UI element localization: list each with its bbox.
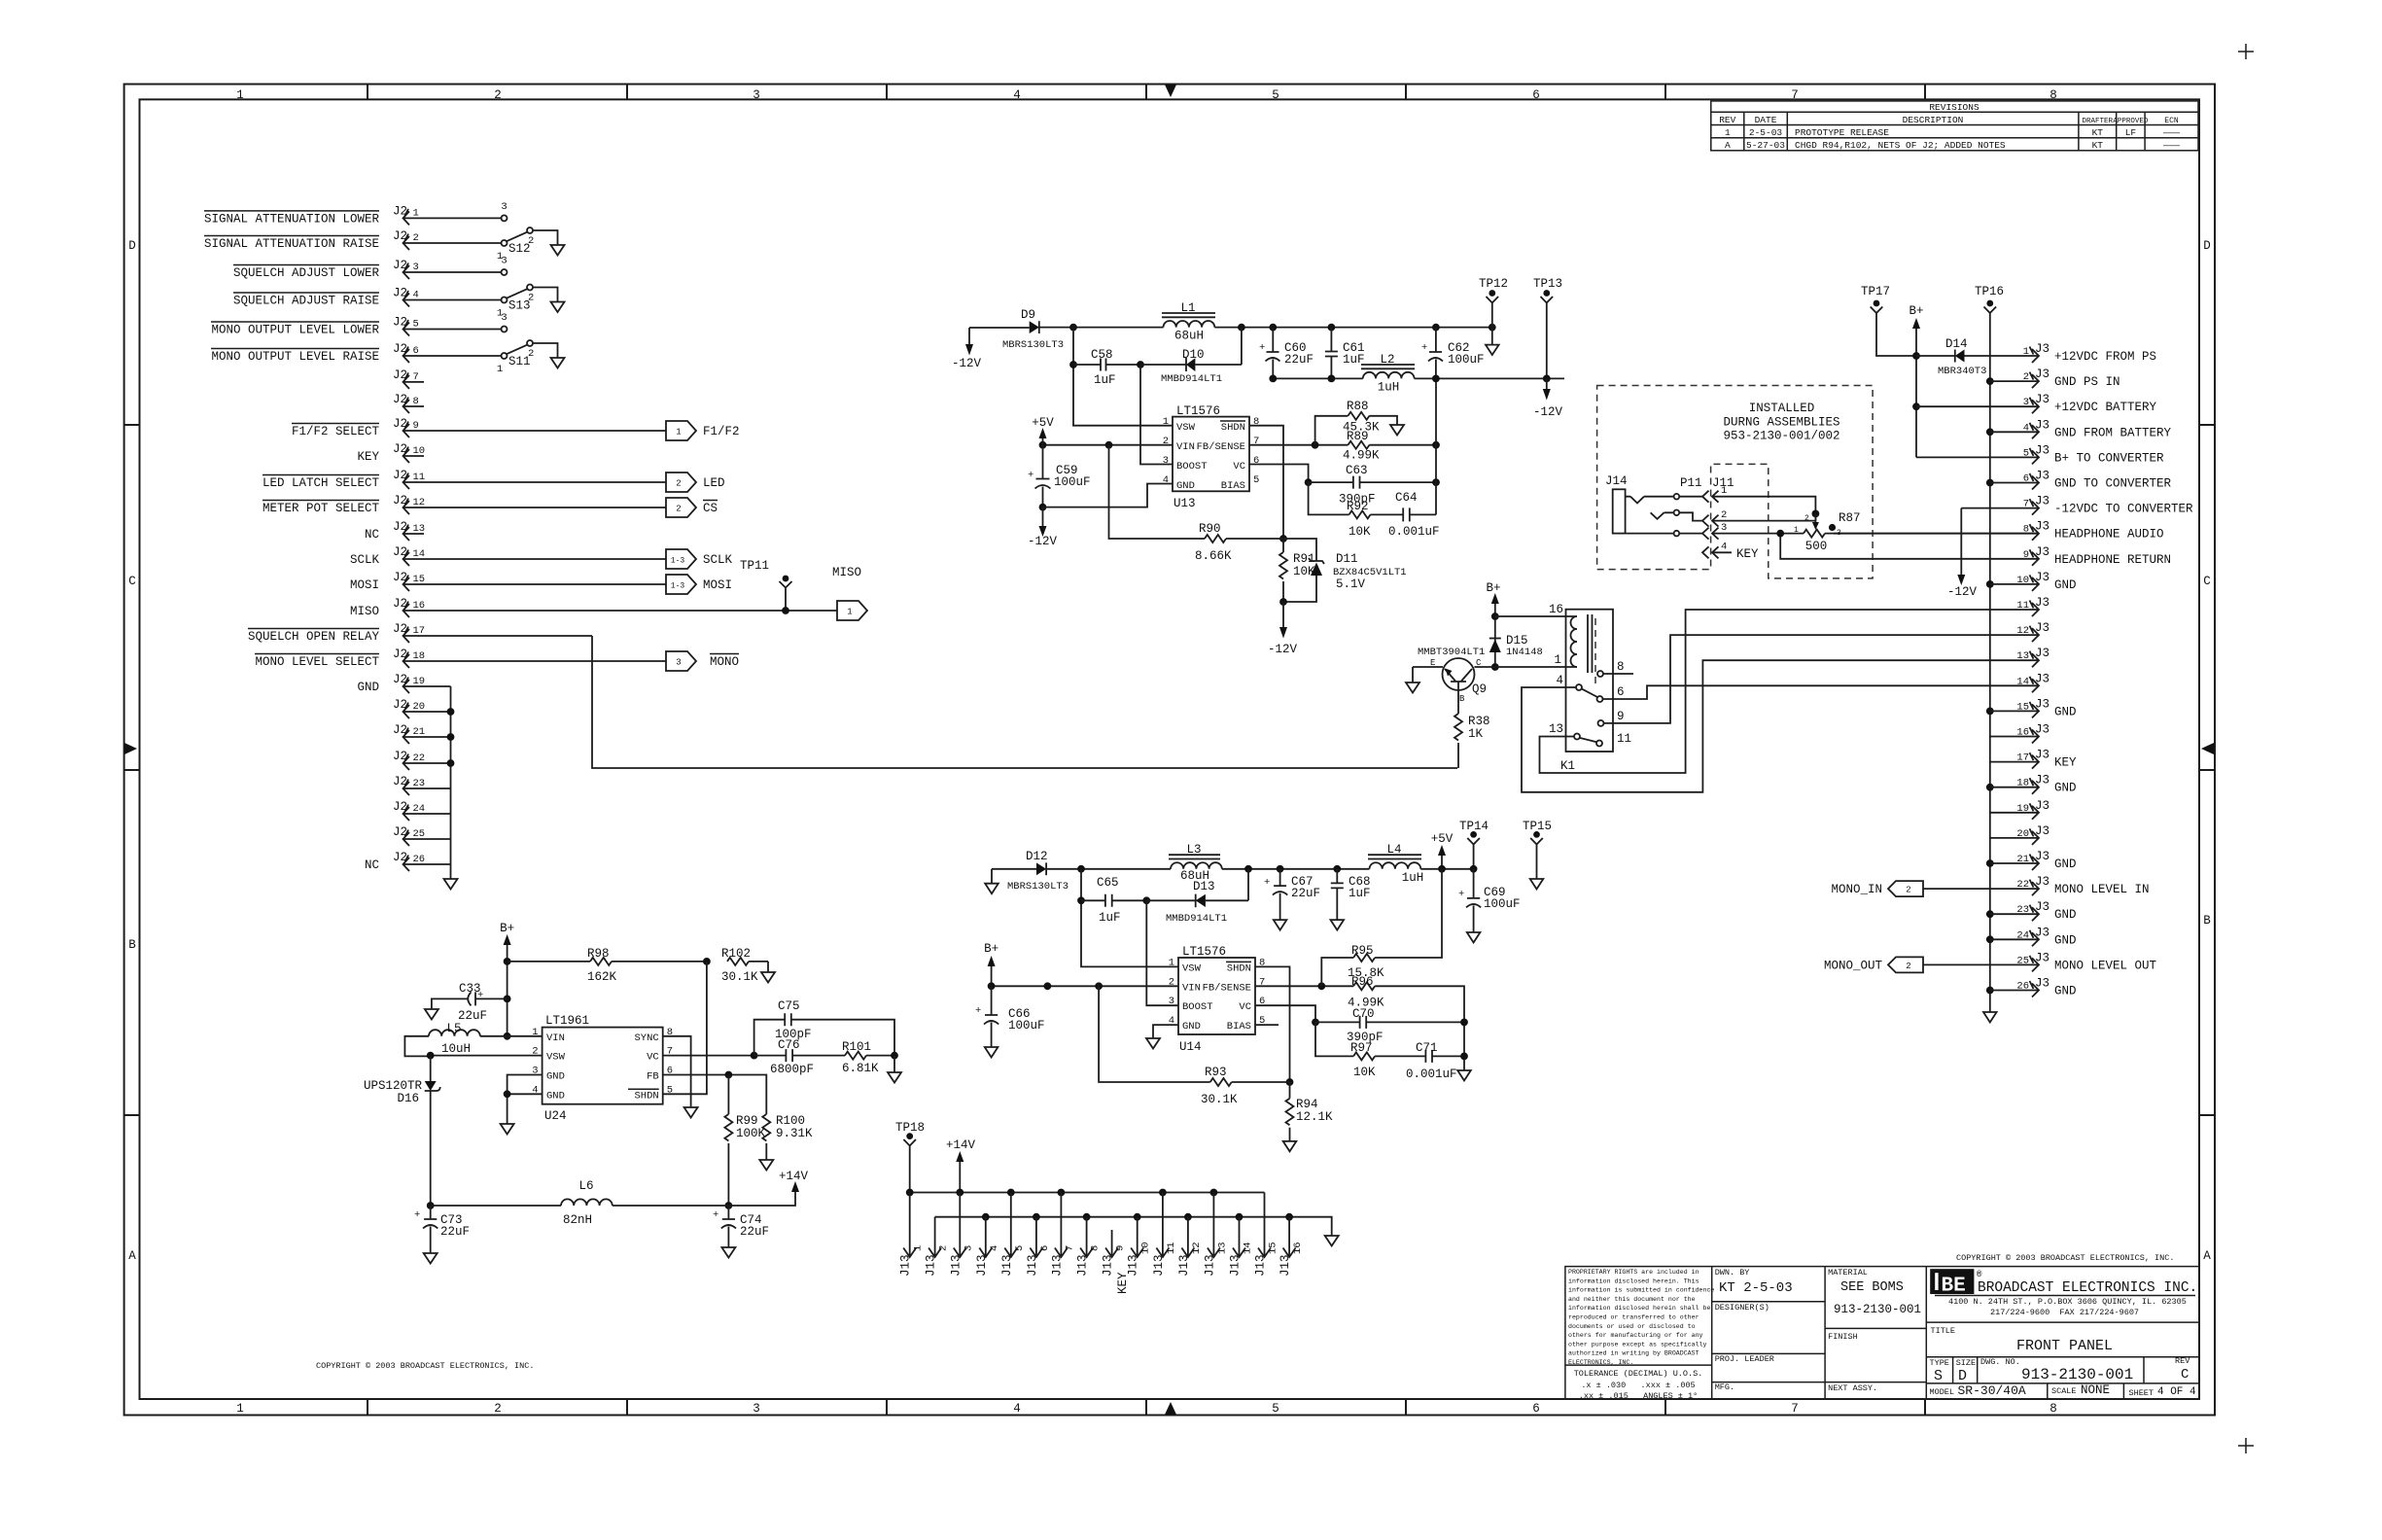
capacitor C63: [1309, 464, 1436, 507]
connector J2 pin 5: [393, 316, 502, 336]
svg-text:BROADCAST ELECTRONICS INC.: BROADCAST ELECTRONICS INC.: [1978, 1280, 2197, 1296]
svg-text:25: 25: [2016, 955, 2029, 966]
svg-text:GND: GND: [2054, 908, 2077, 922]
svg-text:B+: B+: [984, 942, 998, 956]
svg-text:913-2130-001: 913-2130-001: [2021, 1366, 2133, 1383]
relay K1 / Q9 driver section: [1406, 581, 1633, 773]
svg-text:SEE BOMS: SEE BOMS: [1840, 1280, 1904, 1295]
ground (R101/C75): [888, 1056, 901, 1083]
svg-text:TOLERANCE (DECIMAL) U.O.S.: TOLERANCE (DECIMAL) U.O.S.: [1574, 1369, 1703, 1379]
svg-text:K1: K1: [1560, 759, 1575, 773]
svg-text:and neither this document nor: and neither this document nor the: [1568, 1296, 1696, 1303]
power +14V: [779, 1170, 809, 1192]
svg-text:3: 3: [753, 1402, 760, 1416]
svg-text:C75: C75: [778, 999, 800, 1013]
svg-text:C64: C64: [1395, 491, 1418, 505]
svg-text:LED: LED: [703, 476, 725, 490]
capacitor C68: [1331, 869, 1371, 920]
connector J13 pin 6: [1026, 1217, 1051, 1277]
connector J3 pin 3: [1916, 393, 2157, 414]
connector J3 pin 12 (wire to K1 pin 9): [1604, 621, 2050, 723]
svg-text:MBRS130LT3: MBRS130LT3: [1007, 881, 1068, 892]
connector J3 pin 11 (wire to K1 pin 13): [1540, 596, 2050, 773]
wire J11.1 to R87 wiper: [1712, 497, 1815, 521]
contact pin 4: [1576, 684, 1582, 690]
connector J3 pin 24: [1986, 926, 2077, 947]
svg-text:SIGNAL ATTENUATION LOWER: SIGNAL ATTENUATION LOWER: [204, 212, 380, 226]
resistor R102: [721, 947, 768, 984]
svg-text:-12V: -12V: [1268, 643, 1298, 656]
svg-text:®: ®: [1977, 1270, 1982, 1279]
lower B+ to +5V converter (U14): [975, 820, 1552, 1151]
connector J2 pin 18: [393, 647, 666, 668]
svg-text:TP17: TP17: [1861, 285, 1890, 298]
svg-text:10K: 10K: [1349, 525, 1371, 539]
svg-text:MONO: MONO: [710, 655, 739, 669]
svg-text:GND: GND: [546, 1090, 565, 1102]
svg-text:MISO: MISO: [350, 605, 379, 618]
svg-text:FB: FB: [647, 1071, 659, 1083]
connector J3 pin 9: [1780, 534, 2171, 567]
svg-text:J2: J2: [393, 393, 407, 406]
svg-text:J3: J3: [2035, 850, 2049, 863]
ground (R102): [761, 962, 775, 983]
svg-text:100uF: 100uF: [1054, 475, 1091, 489]
svg-text:2: 2: [676, 479, 681, 489]
inductor L2: [1361, 353, 1415, 395]
svg-text:L6: L6: [578, 1179, 593, 1193]
switch S12: [497, 201, 565, 262]
svg-text:16: 16: [1292, 1242, 1304, 1254]
svg-text:10uH: 10uH: [441, 1042, 471, 1056]
svg-text:-12V: -12V: [1533, 405, 1563, 419]
svg-text:16: 16: [2016, 727, 2029, 739]
svg-text:R97: R97: [1350, 1041, 1373, 1055]
power B+: [1909, 304, 1923, 457]
inductor L4: [1368, 843, 1423, 885]
svg-text:DESIGNER(S): DESIGNER(S): [1715, 1303, 1769, 1312]
svg-text:J13: J13: [899, 1254, 913, 1277]
svg-text:4: 4: [989, 1245, 1000, 1251]
svg-text:J3: J3: [2035, 672, 2049, 685]
relay coil (transformer symbol): [1571, 616, 1578, 667]
port tag MONO_IN: [1831, 881, 2038, 896]
svg-text:J2: J2: [393, 417, 407, 431]
svg-text:-12V: -12V: [1028, 535, 1058, 548]
connector J2 pin 22: [393, 750, 454, 770]
svg-text:GND PS IN: GND PS IN: [2054, 375, 2120, 389]
svg-text:4: 4: [413, 290, 419, 301]
net label SQUELCH OPEN RELAY: [248, 629, 380, 645]
svg-text:3: 3: [501, 312, 507, 324]
svg-text:J3: J3: [2035, 520, 2049, 534]
connector J13 pin 3: [949, 1193, 974, 1277]
svg-text:J2: J2: [393, 520, 407, 534]
svg-text:18: 18: [413, 650, 426, 662]
svg-text:GND: GND: [2054, 578, 2077, 592]
wire SHDN pin8: [1249, 426, 1283, 539]
svg-text:162K: 162K: [587, 970, 617, 984]
svg-text:J2: J2: [393, 775, 407, 788]
svg-text:KEY: KEY: [2054, 756, 2077, 770]
svg-text:J14: J14: [1605, 474, 1628, 488]
svg-text:PROTOTYPE RELEASE: PROTOTYPE RELEASE: [1795, 127, 1889, 138]
svg-text:SQUELCH ADJUST LOWER: SQUELCH ADJUST LOWER: [233, 266, 380, 280]
svg-text:23: 23: [2016, 904, 2029, 916]
svg-text:J3: J3: [2035, 367, 2049, 381]
svg-text:GND: GND: [2054, 985, 2077, 998]
connector J2 pin 24: [393, 800, 451, 821]
transistor Q9 MMBT3904LT1: [1418, 647, 1487, 704]
wire GND pins 3,4: [508, 1075, 543, 1125]
connector J13 pin 5: [1000, 1193, 1026, 1277]
svg-text:KEY: KEY: [1736, 547, 1759, 561]
svg-text:18: 18: [2016, 778, 2029, 789]
svg-text:TP13: TP13: [1533, 277, 1562, 291]
svg-text:21: 21: [2016, 854, 2029, 865]
test point TP14: [1459, 820, 1489, 869]
svg-text:30.1K: 30.1K: [721, 970, 758, 984]
power -12V (TP13): [1533, 378, 1563, 419]
connector J2 pin 8: [393, 393, 424, 413]
svg-text:5-27-03: 5-27-03: [1746, 140, 1785, 151]
wire +5V rail: [1214, 327, 1492, 329]
svg-text:J3: J3: [2035, 951, 2049, 964]
diode D10: [1140, 328, 1242, 385]
svg-text:NONE: NONE: [2081, 1383, 2110, 1397]
net label MONO OUTPUT LEVEL LOWER: [211, 322, 379, 337]
power +5V: [1032, 416, 1054, 445]
svg-text:20: 20: [413, 701, 426, 713]
svg-text:1: 1: [236, 88, 244, 102]
power B+ (relay): [1486, 581, 1500, 667]
resistor R88: [1315, 400, 1404, 445]
svg-text:J3: J3: [2035, 723, 2049, 737]
net label METER POT SELECT: [263, 501, 380, 516]
schottky diode D16 UPS120TR: [364, 1056, 440, 1105]
svg-text:reproduced or transferred to o: reproduced or transferred to other: [1568, 1314, 1699, 1321]
connector J13 pin 14: [1229, 1217, 1254, 1277]
svg-text:J3: J3: [2035, 393, 2049, 406]
ground (U24 gnd): [501, 1124, 514, 1135]
net label MONO LEVEL SELECT: [255, 654, 379, 670]
svg-text:22uF: 22uF: [740, 1225, 769, 1239]
svg-text:6: 6: [2023, 473, 2029, 485]
svg-text:D9: D9: [1021, 308, 1035, 322]
svg-text:+5V: +5V: [1032, 416, 1054, 430]
connector J2 pin 16: [393, 597, 837, 617]
wire -12V output rail: [1273, 377, 1564, 379]
connector J3 pin 22: [2016, 875, 2149, 896]
svg-text:C63: C63: [1346, 464, 1368, 477]
ground (C73): [424, 1253, 438, 1264]
svg-text:B: B: [2203, 914, 2211, 927]
upper -12V to +5V converter (U13): [952, 277, 1564, 656]
inductor L1: [1162, 301, 1215, 343]
svg-text:26: 26: [2016, 981, 2029, 993]
svg-text:22: 22: [413, 752, 426, 764]
svg-text:L5: L5: [446, 1022, 461, 1035]
svg-text:F1/F2 SELECT: F1/F2 SELECT: [292, 425, 380, 438]
node +14V rail junctions: [906, 1189, 914, 1197]
note text: [1723, 402, 1839, 443]
svg-text:C: C: [128, 575, 136, 588]
svg-text:R38: R38: [1468, 715, 1490, 728]
connector J2 pin 3: [393, 259, 502, 279]
power -12V (below C59): [1028, 507, 1058, 548]
svg-text:J2: J2: [393, 597, 407, 611]
svg-text:A: A: [2203, 1249, 2211, 1263]
svg-text:MOSI: MOSI: [703, 578, 732, 592]
svg-text:B: B: [128, 938, 136, 952]
svg-text:5.1V: 5.1V: [1336, 577, 1366, 591]
test point TP18: [895, 1121, 925, 1193]
svg-text:+: +: [1264, 877, 1270, 889]
wire SHDN pin8: [1255, 966, 1290, 1082]
svg-text:J2: J2: [393, 622, 407, 636]
connector J3 pin 19: [1990, 799, 2049, 820]
svg-text:4 OF 4: 4 OF 4: [2157, 1386, 2196, 1398]
svg-text:J13: J13: [1127, 1254, 1140, 1277]
svg-text:6: 6: [1532, 1402, 1540, 1416]
svg-text:TYPE: TYPE: [1930, 1358, 1949, 1368]
net label SIGNAL ATTENUATION LOWER: [204, 211, 380, 227]
connector J3 pin 23: [1986, 900, 2077, 922]
ground (TP15): [1530, 879, 1544, 890]
capacitor C64: [1388, 491, 1440, 539]
svg-text:100uF: 100uF: [1484, 897, 1521, 911]
svg-text:D12: D12: [1026, 850, 1048, 863]
wire D16 to low rail: [430, 1091, 432, 1206]
svg-text:SHDN: SHDN: [1227, 962, 1251, 974]
svg-text:J3: J3: [2035, 342, 2049, 356]
capacitor C60: [1259, 328, 1314, 379]
svg-text:SCALE: SCALE: [2051, 1386, 2077, 1396]
wire J11.2: [1712, 520, 1815, 522]
svg-text:J2: J2: [393, 229, 407, 243]
svg-text:D16: D16: [397, 1092, 419, 1105]
svg-text:CHGD R94,R102, NETS OF J2; ADD: CHGD R94,R102, NETS OF J2; ADDED NOTES: [1795, 140, 2006, 151]
net label SQUELCH ADJUST LOWER: [233, 265, 380, 281]
capacitor C75: [754, 999, 894, 1056]
svg-text:3: 3: [753, 88, 760, 102]
svg-text:HEADPHONE AUDIO: HEADPHONE AUDIO: [2054, 528, 2164, 542]
svg-text:VIN: VIN: [546, 1032, 565, 1044]
port tag MOSI: [666, 575, 732, 594]
inductor L3: [1169, 843, 1222, 883]
svg-text:2: 2: [938, 1245, 950, 1251]
svg-text:+5V: +5V: [1431, 832, 1454, 846]
svg-text:REVISIONS: REVISIONS: [1929, 102, 1979, 113]
svg-text:ELECTRONICS, INC.: ELECTRONICS, INC.: [1568, 1359, 1633, 1366]
connector J2 pin 9: [393, 417, 666, 437]
svg-text:3: 3: [1837, 529, 1841, 538]
svg-text:2: 2: [494, 1402, 502, 1416]
connector J3 pin 26: [1986, 977, 2077, 998]
connector J13 pin 1: [899, 1193, 925, 1277]
svg-text:J3: J3: [2035, 824, 2049, 838]
svg-text:J2: J2: [393, 316, 407, 330]
svg-text:+: +: [1259, 342, 1265, 354]
svg-text:8: 8: [1617, 660, 1625, 674]
net label LED LATCH SELECT: [263, 475, 380, 491]
connector J2 pin 12: [393, 494, 666, 514]
connector J13 pin 8: [1076, 1217, 1102, 1277]
svg-text:BOOST: BOOST: [1176, 461, 1208, 472]
svg-text:P11: P11: [1680, 476, 1702, 490]
wire: [1046, 868, 1171, 870]
svg-text:16: 16: [413, 600, 426, 612]
svg-text:22uF: 22uF: [1291, 887, 1320, 900]
svg-text:12: 12: [413, 497, 426, 508]
svg-text:MBRS130LT3: MBRS130LT3: [1002, 339, 1064, 351]
svg-text:TP11: TP11: [740, 559, 769, 573]
svg-text:COPYRIGHT © 2003 BROADCAST ELE: COPYRIGHT © 2003 BROADCAST ELECTRONICS, …: [316, 1361, 534, 1371]
svg-text:NC: NC: [365, 528, 379, 542]
power -12V (input, left): [952, 328, 982, 370]
svg-text:12.1K: 12.1K: [1296, 1110, 1333, 1124]
svg-text:15: 15: [2016, 701, 2029, 713]
svg-text:+12VDC FROM PS: +12VDC FROM PS: [2054, 350, 2156, 364]
svg-text:11: 11: [413, 472, 426, 483]
svg-text:953-2130-001/002: 953-2130-001/002: [1723, 430, 1839, 443]
svg-text:R92: R92: [1347, 500, 1369, 513]
svg-text:S11: S11: [508, 355, 531, 368]
svg-text:3: 3: [413, 262, 419, 273]
svg-text:D: D: [128, 239, 136, 253]
svg-text:1-3: 1-3: [671, 557, 685, 566]
power -12V (below R91): [1268, 602, 1298, 656]
connector J13 pin 15: [1254, 1193, 1279, 1277]
svg-text:MBR340T3: MBR340T3: [1938, 366, 1986, 377]
connector J2 pin 17: [393, 622, 592, 643]
svg-text:BIAS: BIAS: [1221, 480, 1245, 492]
svg-text:7: 7: [413, 371, 419, 383]
svg-text:R87: R87: [1839, 511, 1861, 525]
svg-text:S: S: [1934, 1368, 1943, 1384]
svg-text:14: 14: [1243, 1242, 1254, 1254]
svg-text:R94: R94: [1296, 1098, 1318, 1111]
port tag MONO: [666, 651, 739, 671]
switch S13: [497, 256, 565, 320]
svg-text:FRONT PANEL: FRONT PANEL: [2016, 1338, 2113, 1354]
connector J2 pin 25: [393, 825, 451, 846]
svg-text:4: 4: [1013, 1402, 1021, 1416]
svg-text:GND: GND: [2054, 705, 2077, 718]
connector J3 pin 17: [1990, 749, 2077, 770]
svg-text:25: 25: [413, 828, 426, 840]
svg-text:R93: R93: [1205, 1066, 1227, 1079]
svg-text:+: +: [1458, 889, 1464, 900]
power B+ (U14 input): [984, 942, 998, 986]
svg-text:5: 5: [2023, 447, 2029, 459]
svg-text:MONO LEVEL IN: MONO LEVEL IN: [2054, 883, 2150, 896]
svg-text:MONO LEVEL OUT: MONO LEVEL OUT: [2054, 959, 2157, 972]
svg-text:SHEET: SHEET: [2129, 1388, 2154, 1398]
connector J2 pin 7: [393, 368, 424, 389]
svg-text:J2: J2: [393, 442, 407, 456]
svg-text:TP15: TP15: [1523, 820, 1552, 833]
svg-text:GND: GND: [2054, 857, 2077, 871]
svg-text:5: 5: [1014, 1245, 1026, 1251]
svg-text:11: 11: [1166, 1242, 1177, 1254]
connector J3 pin 25: [2016, 951, 2156, 972]
svg-text:1K: 1K: [1468, 727, 1484, 741]
svg-text:3: 3: [1721, 522, 1727, 534]
wire VC pin7: [663, 1055, 754, 1057]
wire -12V feedback column: [1435, 378, 1437, 514]
svg-text:12: 12: [1191, 1242, 1203, 1254]
capacitor C71: [1406, 1041, 1464, 1081]
svg-text:3: 3: [501, 256, 507, 267]
svg-text:SHDN: SHDN: [1221, 422, 1245, 434]
svg-text:MFG.: MFG.: [1715, 1382, 1734, 1392]
svg-text:11: 11: [1617, 732, 1631, 746]
svg-text:VSW: VSW: [1176, 422, 1196, 434]
wire J2.17 to R38 base: [592, 636, 1457, 768]
svg-text:D15: D15: [1506, 634, 1528, 647]
resistor R99: [724, 1075, 765, 1207]
J2 connector section: [204, 201, 1457, 890]
svg-text:6: 6: [1617, 685, 1625, 699]
ground (below TP12 node): [1486, 328, 1499, 355]
resistor R89: [1343, 430, 1436, 463]
svg-text:R98: R98: [587, 947, 610, 961]
wire VSW branch: [1073, 328, 1173, 426]
svg-text:information is submitted in co: information is submitted in confidence: [1568, 1287, 1714, 1294]
svg-text:9: 9: [1115, 1245, 1127, 1251]
svg-text:LF: LF: [2125, 127, 2137, 138]
svg-text:C33: C33: [459, 982, 481, 996]
connector J3 pin 21: [1986, 850, 2077, 871]
connector J2 pin 11: [393, 469, 666, 489]
wire +14V rail (J13 odd pins): [910, 1192, 1265, 1194]
svg-text:2-5-03: 2-5-03: [1749, 127, 1783, 138]
svg-text:GND: GND: [1176, 480, 1195, 492]
connector J13 pin 2: [925, 1217, 950, 1277]
svg-text:J2: J2: [393, 723, 407, 737]
inductor L6: [561, 1179, 613, 1227]
wire VIN rail: [1043, 444, 1173, 446]
svg-text:1: 1: [847, 608, 852, 617]
svg-text:L4: L4: [1386, 843, 1401, 857]
ground (R94): [1283, 1141, 1297, 1152]
svg-text:S13: S13: [508, 299, 531, 313]
svg-text:1: 1: [497, 364, 503, 375]
svg-text:GND: GND: [2054, 933, 2077, 947]
svg-text:BIAS: BIAS: [1227, 1021, 1251, 1032]
svg-text:10: 10: [413, 445, 426, 457]
svg-text:1uF: 1uF: [1349, 887, 1371, 900]
svg-text:7: 7: [1791, 88, 1799, 102]
svg-text:13: 13: [2016, 650, 2029, 662]
svg-text:TITLE: TITLE: [1931, 1326, 1956, 1336]
svg-text:DATE: DATE: [1755, 115, 1777, 125]
junction on MISO wire: [782, 607, 789, 614]
svg-text:J2: J2: [393, 342, 407, 356]
resistor R95: [1321, 869, 1442, 987]
svg-text:3: 3: [1163, 455, 1169, 467]
svg-text:KEY: KEY: [357, 450, 379, 464]
BE logo: [1930, 1269, 1974, 1294]
svg-text:217/224-9600 FAX 217/224-9607: 217/224-9600 FAX 217/224-9607: [1990, 1308, 2139, 1317]
diode D14: [1916, 337, 2038, 377]
junction: [1069, 324, 1077, 332]
svg-text:J2: J2: [393, 647, 407, 661]
svg-text:22uF: 22uF: [458, 1009, 487, 1023]
svg-text:MONO OUTPUT LEVEL RAISE: MONO OUTPUT LEVEL RAISE: [211, 350, 379, 364]
node VIN junctions: [1095, 982, 1103, 990]
